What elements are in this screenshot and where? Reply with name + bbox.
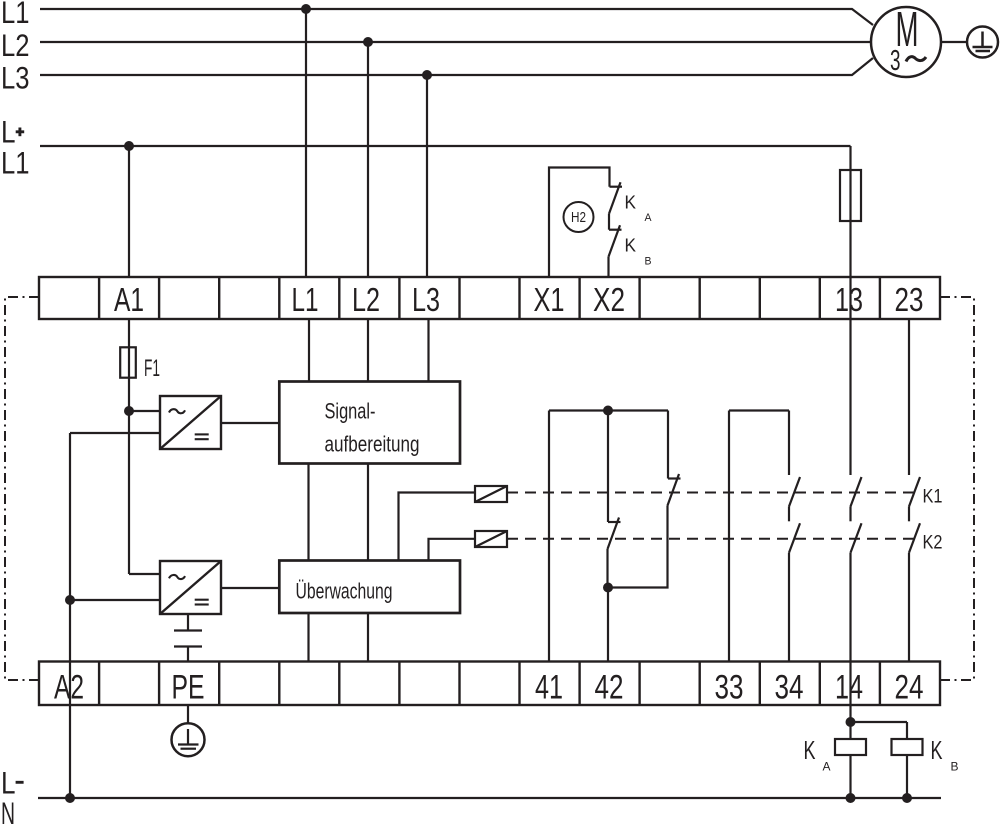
svg-text:aufbereitung: aufbereitung: [325, 432, 420, 457]
svg-text:K: K: [625, 235, 637, 256]
svg-text:L1: L1: [1, 0, 30, 30]
svg-text:L3: L3: [1, 60, 30, 96]
svg-text:F1: F1: [144, 355, 160, 382]
svg-text:A1: A1: [114, 281, 144, 318]
svg-text:A: A: [823, 762, 831, 774]
svg-text:24: 24: [895, 669, 924, 707]
svg-text:K: K: [625, 192, 637, 213]
svg-text:Überwachung: Überwachung: [296, 579, 393, 604]
svg-text:K2: K2: [923, 533, 943, 554]
svg-text:PE: PE: [172, 669, 205, 707]
svg-text:X2: X2: [593, 281, 625, 318]
svg-text:L1: L1: [292, 281, 319, 318]
svg-text:14: 14: [835, 669, 863, 707]
svg-text:K: K: [804, 735, 816, 765]
svg-text:L2: L2: [1, 27, 30, 63]
svg-text:K: K: [931, 735, 943, 765]
svg-text:L2: L2: [352, 281, 380, 318]
svg-text:41: 41: [535, 669, 563, 707]
svg-text:42: 42: [595, 669, 624, 707]
svg-text:23: 23: [895, 281, 924, 318]
svg-text:L1: L1: [1, 145, 30, 181]
svg-text:33: 33: [715, 669, 744, 707]
svg-text:B: B: [951, 762, 959, 774]
svg-text:L3: L3: [412, 281, 440, 318]
svg-text:N: N: [1, 795, 15, 828]
svg-text:A: A: [645, 212, 653, 224]
svg-text:34: 34: [775, 669, 804, 707]
svg-text:3: 3: [890, 45, 901, 77]
svg-text:13: 13: [835, 281, 863, 318]
svg-text:X1: X1: [534, 281, 565, 318]
svg-text:H2: H2: [571, 209, 586, 226]
svg-text:B: B: [645, 256, 652, 268]
svg-text:K1: K1: [923, 487, 943, 508]
svg-text:Signal-: Signal-: [325, 399, 376, 424]
svg-text:A2: A2: [54, 669, 84, 707]
